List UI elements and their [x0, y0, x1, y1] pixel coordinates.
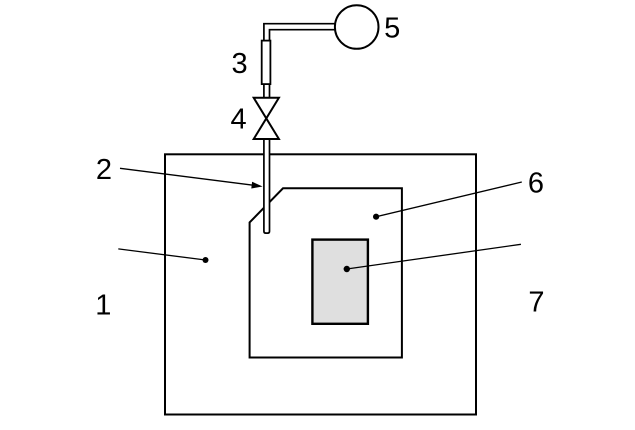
- wire: pipe segment between tube 3 and valve 4: [264, 83, 270, 99]
- svg-text:1: 1: [95, 289, 111, 321]
- node dot for label 7: [344, 266, 350, 272]
- valve 4 (bowtie): [254, 98, 279, 139]
- leader line for label 7: [347, 244, 521, 269]
- node dot for label 1: [203, 257, 209, 263]
- arrowhead of leader 2: [251, 182, 262, 189]
- svg-text:5: 5: [384, 13, 400, 45]
- svg-text:2: 2: [96, 154, 112, 186]
- wire: elbow double line from tube top to bulb 5: [264, 24, 340, 42]
- svg-text:7: 7: [528, 287, 544, 319]
- leader line for label 6: [376, 182, 522, 217]
- svg-text:3: 3: [232, 48, 248, 80]
- leader line for label 2 (arrow): [120, 168, 253, 185]
- outer container box 1: [165, 154, 476, 414]
- inner box 6 with chamfered top-left corner: [250, 188, 402, 357]
- wire: vertical pipe 2 (below valve, through box wall, rounded closed bottom): [264, 138, 270, 233]
- node dot for label 6: [373, 214, 379, 220]
- gray sample block (item 7): [312, 240, 368, 324]
- bulb 5 (circle): [335, 5, 379, 49]
- svg-text:6: 6: [528, 167, 544, 199]
- svg-text:4: 4: [231, 104, 247, 136]
- leader line for label 1: [118, 249, 205, 260]
- tube section 3: [262, 41, 271, 85]
